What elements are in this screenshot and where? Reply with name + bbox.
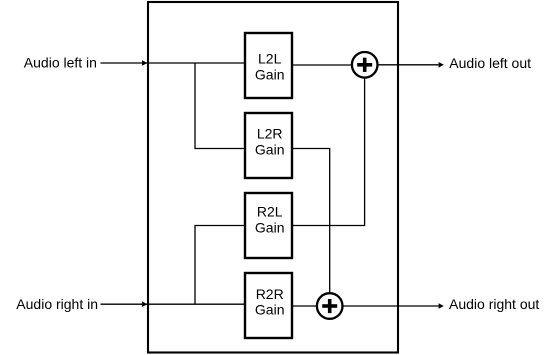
wire: left branch to L2R: [195, 63, 245, 149]
summing junction S2 (right output): [317, 293, 343, 319]
svg-text:Gain: Gain: [255, 66, 285, 82]
svg-text:Gain: Gain: [255, 220, 285, 236]
wire: L2L output to summing junction: [292, 64, 353, 66]
summing junction S1 (left output): [352, 52, 378, 78]
svg-text:Gain: Gain: [255, 141, 285, 157]
outer box: [148, 2, 398, 353]
wire: R2R output to summing junction: [292, 305, 318, 307]
svg-text:Audio left out: Audio left out: [449, 55, 531, 71]
block L2L Gain: [245, 33, 292, 98]
svg-text:R2L: R2L: [257, 204, 283, 220]
block R2L Gain: [245, 193, 292, 258]
block L2R Gain: [245, 113, 292, 178]
wire: audio right out: [343, 303, 444, 309]
svg-text:Audio left in: Audio left in: [24, 54, 97, 70]
svg-text:L2L: L2L: [258, 50, 282, 66]
wire: audio left in: [101, 60, 246, 66]
wire: right branch to R2L: [195, 226, 245, 305]
svg-text:L2R: L2R: [257, 126, 283, 142]
wire: R2L output up to left sum: [292, 78, 365, 226]
svg-text:Audio right in: Audio right in: [16, 296, 98, 312]
svg-text:Gain: Gain: [255, 302, 285, 318]
svg-text:Audio right out: Audio right out: [449, 296, 539, 312]
wire: L2R output down to right sum: [292, 149, 330, 295]
block R2R Gain: [245, 273, 292, 338]
svg-text:R2R: R2R: [256, 286, 284, 302]
wire: audio right in: [101, 301, 246, 307]
wire: audio left out: [378, 62, 444, 68]
